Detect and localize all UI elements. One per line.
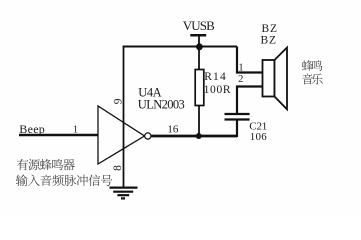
wire VUSB stem bbox=[198, 35, 200, 46]
op-amp U4A triangle bbox=[98, 106, 145, 164]
capacitor C21 bottom plate bbox=[225, 118, 250, 120]
wire R14 top lead bbox=[198, 47, 200, 70]
ground bbox=[110, 188, 138, 199]
wire rail drop to buzzer pin 1 bbox=[237, 47, 263, 73]
wire buzzer pin 2 to capacitor bbox=[237, 87, 263, 115]
svg-text:8: 8 bbox=[112, 165, 124, 171]
svg-text:100R: 100R bbox=[204, 84, 231, 96]
svg-text:BZ: BZ bbox=[261, 35, 277, 47]
wire C21 bottom lead bbox=[236, 120, 238, 138]
svg-text:16: 16 bbox=[167, 124, 179, 136]
wire Beep input bbox=[19, 134, 98, 137]
svg-text:1: 1 bbox=[73, 125, 78, 136]
svg-text:9: 9 bbox=[112, 98, 124, 104]
annotation 蜂鸣 (buzzer) line 1 bbox=[302, 60, 313, 71]
svg-text:VUSB: VUSB bbox=[183, 18, 215, 33]
svg-text:BZ: BZ bbox=[262, 23, 278, 35]
power VUSB symbol bar bbox=[190, 34, 206, 37]
wire VUSB rail bbox=[123, 46, 237, 48]
annotation 输入音频脉冲信号 (input audio pulse signal) bbox=[16, 175, 28, 186]
wire R14 bottom lead bbox=[198, 106, 200, 137]
buzzer BZ cone bbox=[275, 48, 288, 110]
wire vertical supply through U4A (pin 9 to pin 8) bbox=[123, 47, 125, 188]
junction VUSB node bbox=[196, 43, 203, 50]
resistor R14 body bbox=[195, 70, 204, 106]
junction output node under R14 bbox=[196, 133, 202, 139]
svg-text:ULN2003: ULN2003 bbox=[138, 97, 185, 111]
wire output pin 16 bbox=[151, 135, 237, 138]
annotation 有源蜂鸣器 (active buzzer) bbox=[17, 159, 28, 170]
buzzer BZ body bbox=[263, 60, 275, 97]
svg-text:2: 2 bbox=[238, 74, 243, 85]
svg-text:1: 1 bbox=[238, 62, 243, 73]
capacitor C21 top plate bbox=[225, 113, 250, 115]
output bubble of U4A bbox=[145, 133, 151, 139]
annotation 音乐 (music) line 2 bbox=[302, 74, 313, 85]
svg-text:R14: R14 bbox=[204, 71, 226, 83]
svg-text:106: 106 bbox=[250, 131, 267, 143]
